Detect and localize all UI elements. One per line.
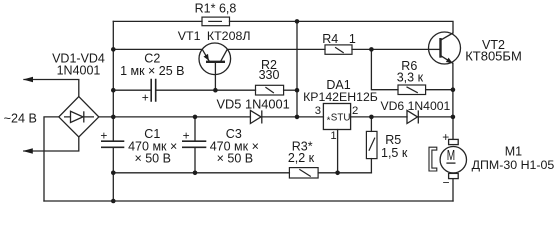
svg-text:КР142ЕН12Б: КР142ЕН12Б (303, 90, 378, 104)
resistor R5 (366, 131, 377, 158)
wire VD5 to DA1 pin3 (262, 116, 324, 118)
regulator DA1 (323, 104, 350, 130)
svg-text:R4: R4 (322, 32, 338, 46)
diode VD6 (407, 110, 418, 123)
transistor VT2 (429, 32, 461, 64)
node R6/VT2 emitter (451, 87, 456, 92)
svg-text:R5: R5 (385, 133, 401, 147)
wire R5 bottom lead (370, 159, 372, 173)
wire VT1 emitter to bus (113, 48, 202, 50)
wire C2 left (113, 89, 151, 91)
wire mid rail bridge to VD5 (99, 116, 251, 118)
wire VT1 collector to R4 (227, 48, 325, 50)
svg-text:VT1: VT1 (178, 29, 201, 43)
svg-text:1N4001: 1N4001 (57, 64, 101, 78)
node bus/bottom bus (111, 199, 116, 204)
svg-text:1,5 к: 1,5 к (381, 146, 408, 160)
resistor R4 (325, 45, 352, 54)
svg-text:M: M (447, 148, 455, 164)
diode VD5 (250, 110, 261, 123)
wire lower rail right of R3 (318, 172, 371, 174)
wire VT1 base lead (214, 62, 216, 90)
svg-text:1: 1 (330, 130, 336, 142)
capacitor C3 (182, 141, 206, 147)
resistor R1 (202, 17, 230, 26)
diode bridge VD1-VD4 (59, 97, 99, 137)
node VT2 emitter/VD6/motor (451, 115, 456, 120)
svg-text:КТ208Л: КТ208Л (207, 29, 251, 43)
transistor VT1 (199, 43, 231, 75)
svg-text:1 мк × 25 В: 1 мк × 25 В (120, 64, 184, 78)
wire C2 to R2 (156, 89, 256, 91)
wire vertical node x297 (296, 21, 298, 117)
svg-text:VD5 1N4001: VD5 1N4001 (217, 97, 290, 112)
node R2/x297 (295, 88, 300, 93)
wire motor plus lead (452, 117, 454, 139)
node top bus/x297 (295, 19, 300, 24)
wire DA1 pin2 to VD6 (351, 116, 407, 118)
resistor R2 (256, 85, 284, 95)
arrowhead VT2 emitter (NPN) (446, 58, 453, 64)
wire R2 right (284, 89, 297, 91)
svg-text:+: + (100, 128, 107, 142)
node VT1 base/C2 (213, 88, 218, 93)
wire AC input bottom with arrow (24, 137, 79, 151)
resistor R3 (289, 168, 318, 178)
node bus/VT1 emitter (111, 47, 116, 52)
svg-text:2: 2 (352, 105, 358, 117)
wire top bus left segment (113, 20, 202, 22)
wire base node down to R6 (371, 49, 398, 89)
svg-text:330: 330 (259, 68, 280, 82)
node x297/mid rail (295, 115, 300, 120)
wire top bus right segment to VT2 collector (230, 21, 454, 33)
node DA1 out/R5/VD6 (369, 115, 374, 120)
svg-text:~24 В: ~24 В (4, 112, 37, 126)
wire VT2 emitter vertical (452, 63, 454, 117)
svg-text:× 50 В: × 50 В (217, 152, 254, 166)
node bus/lower rail (111, 171, 116, 176)
capacitor C2 (151, 79, 156, 102)
svg-text:3,3 к: 3,3 к (397, 71, 424, 85)
svg-text:2,2 к: 2,2 к (288, 151, 315, 165)
capacitor C1 (101, 141, 124, 147)
wire VD6 to motor node (418, 116, 453, 118)
svg-text:3: 3 (315, 105, 321, 117)
wire C3 bottom lead (194, 147, 196, 173)
wire bridge minus to bottom bus (44, 117, 59, 201)
wire left vertical bus (112, 21, 114, 201)
arrowhead input top (23, 77, 33, 83)
wire bottom bus (44, 200, 453, 202)
svg-text:× 50 В: × 50 В (134, 152, 171, 166)
node DA1 pin1/lower rail (335, 171, 340, 176)
svg-text:STU: STU (331, 113, 351, 124)
node C3 bottom (193, 171, 198, 176)
wire C3 top lead (194, 117, 196, 141)
resistor R6 (398, 85, 426, 95)
wire motor minus lead (452, 179, 454, 201)
arrowhead VT1 emitter (PNP) (204, 54, 209, 61)
svg-text:ДПМ-30 Н1-05: ДПМ-30 Н1-05 (472, 158, 555, 172)
node C3 top (193, 115, 198, 120)
svg-text:1: 1 (349, 32, 356, 46)
wire R4 to VT2 base (352, 48, 429, 50)
wire R5 top lead (370, 117, 372, 131)
wire R6 right (426, 89, 453, 91)
wire lower rail left of R3 (113, 172, 289, 174)
wire DA1 pin1 lead (337, 130, 339, 173)
node bus/mid rail (111, 115, 116, 120)
motor M1 (429, 139, 466, 178)
node R4/VT2 base (369, 47, 374, 52)
svg-text:VD6 1N4001: VD6 1N4001 (381, 99, 451, 113)
svg-text:−: − (442, 175, 449, 189)
node bus/C2 (111, 88, 116, 93)
svg-text:+: + (183, 128, 190, 142)
wire AC input top with arrow (24, 80, 79, 97)
svg-text:+: + (442, 130, 449, 144)
arrowhead input bottom (23, 148, 33, 154)
svg-text:M1: M1 (505, 145, 522, 159)
svg-text:+: + (142, 91, 149, 105)
svg-text:КТ805БМ: КТ805БМ (465, 49, 522, 64)
svg-text:R1* 6,8: R1* 6,8 (195, 2, 237, 16)
